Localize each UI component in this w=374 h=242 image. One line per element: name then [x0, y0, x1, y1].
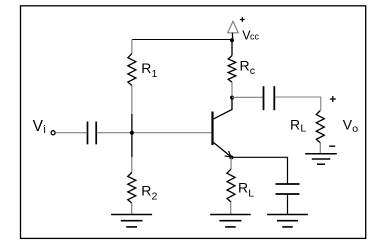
resistor RL (emitter) — [227, 169, 235, 202]
minus sign at output — [329, 145, 335, 147]
resistor Rc — [228, 56, 236, 83]
transistor Q1 base bar — [211, 112, 213, 146]
node: emitter junction dot — [229, 155, 233, 159]
plus sign at Vcc — [240, 17, 245, 22]
svg-text:R: R — [141, 183, 151, 199]
svg-text:L: L — [248, 188, 254, 200]
svg-text:R: R — [238, 180, 248, 196]
wire: emitter node down to emitter resistor — [230, 157, 232, 169]
power supply symbol Vcc — [228, 21, 239, 39]
svg-text:R: R — [240, 58, 250, 74]
svg-text:o: o — [352, 123, 358, 135]
wire: Rc bottom to collector node — [231, 82, 233, 97]
wire: input terminal to coupling capacitor — [56, 132, 87, 134]
wire: base node down to R2 — [131, 157, 133, 172]
bypass capacitor — [276, 184, 300, 194]
svg-text:R: R — [290, 117, 300, 133]
svg-text:V: V — [343, 117, 353, 133]
svg-text:2: 2 — [152, 191, 158, 203]
wire: capacitor to base node and on to transistor base — [97, 132, 211, 134]
wire: output capacitor to load RL — [275, 97, 321, 111]
svg-text:c: c — [250, 65, 255, 77]
plus sign at output — [330, 96, 336, 102]
svg-text:1: 1 — [152, 68, 158, 80]
svg-text:V: V — [33, 118, 44, 135]
svg-text:i: i — [43, 124, 45, 136]
resistor R2 — [128, 173, 136, 204]
input terminal circle — [51, 131, 55, 135]
wire: load RL to ground — [319, 143, 321, 154]
wire: top rail from R1 to Vcc node — [132, 39, 232, 41]
wire: R1 bottom to base node — [131, 86, 133, 115]
ground under bypass capacitor — [267, 214, 308, 216]
node: Vcc junction dot — [230, 38, 234, 42]
wire: emitter resistor to ground — [230, 202, 232, 214]
input coupling capacitor — [88, 122, 97, 145]
wire: collector node to output capacitor — [232, 96, 263, 98]
transistor Q1 collector lead — [214, 98, 233, 119]
wire: top rail down to R1 — [131, 40, 133, 54]
output coupling capacitor — [264, 86, 275, 110]
wire: emitter node to bypass capacitor — [231, 157, 287, 184]
transistor Q1 emitter lead with arrow — [214, 143, 231, 157]
resistor R1 — [128, 54, 136, 86]
wire: R2 to ground — [131, 203, 133, 214]
svg-text:R: R — [141, 60, 151, 76]
resistor RL (load) — [316, 111, 324, 143]
ground under load RL — [305, 153, 337, 155]
svg-text:L: L — [300, 123, 306, 135]
wire: Vcc node down to Rc — [231, 40, 233, 55]
ground under R2 — [111, 214, 152, 216]
node: base junction dot — [130, 131, 134, 135]
ground under emitter resistor — [210, 214, 250, 216]
node: collector junction dot — [230, 96, 234, 100]
wire: bypass capacitor to ground — [287, 194, 289, 214]
svg-text:cc: cc — [250, 32, 260, 42]
